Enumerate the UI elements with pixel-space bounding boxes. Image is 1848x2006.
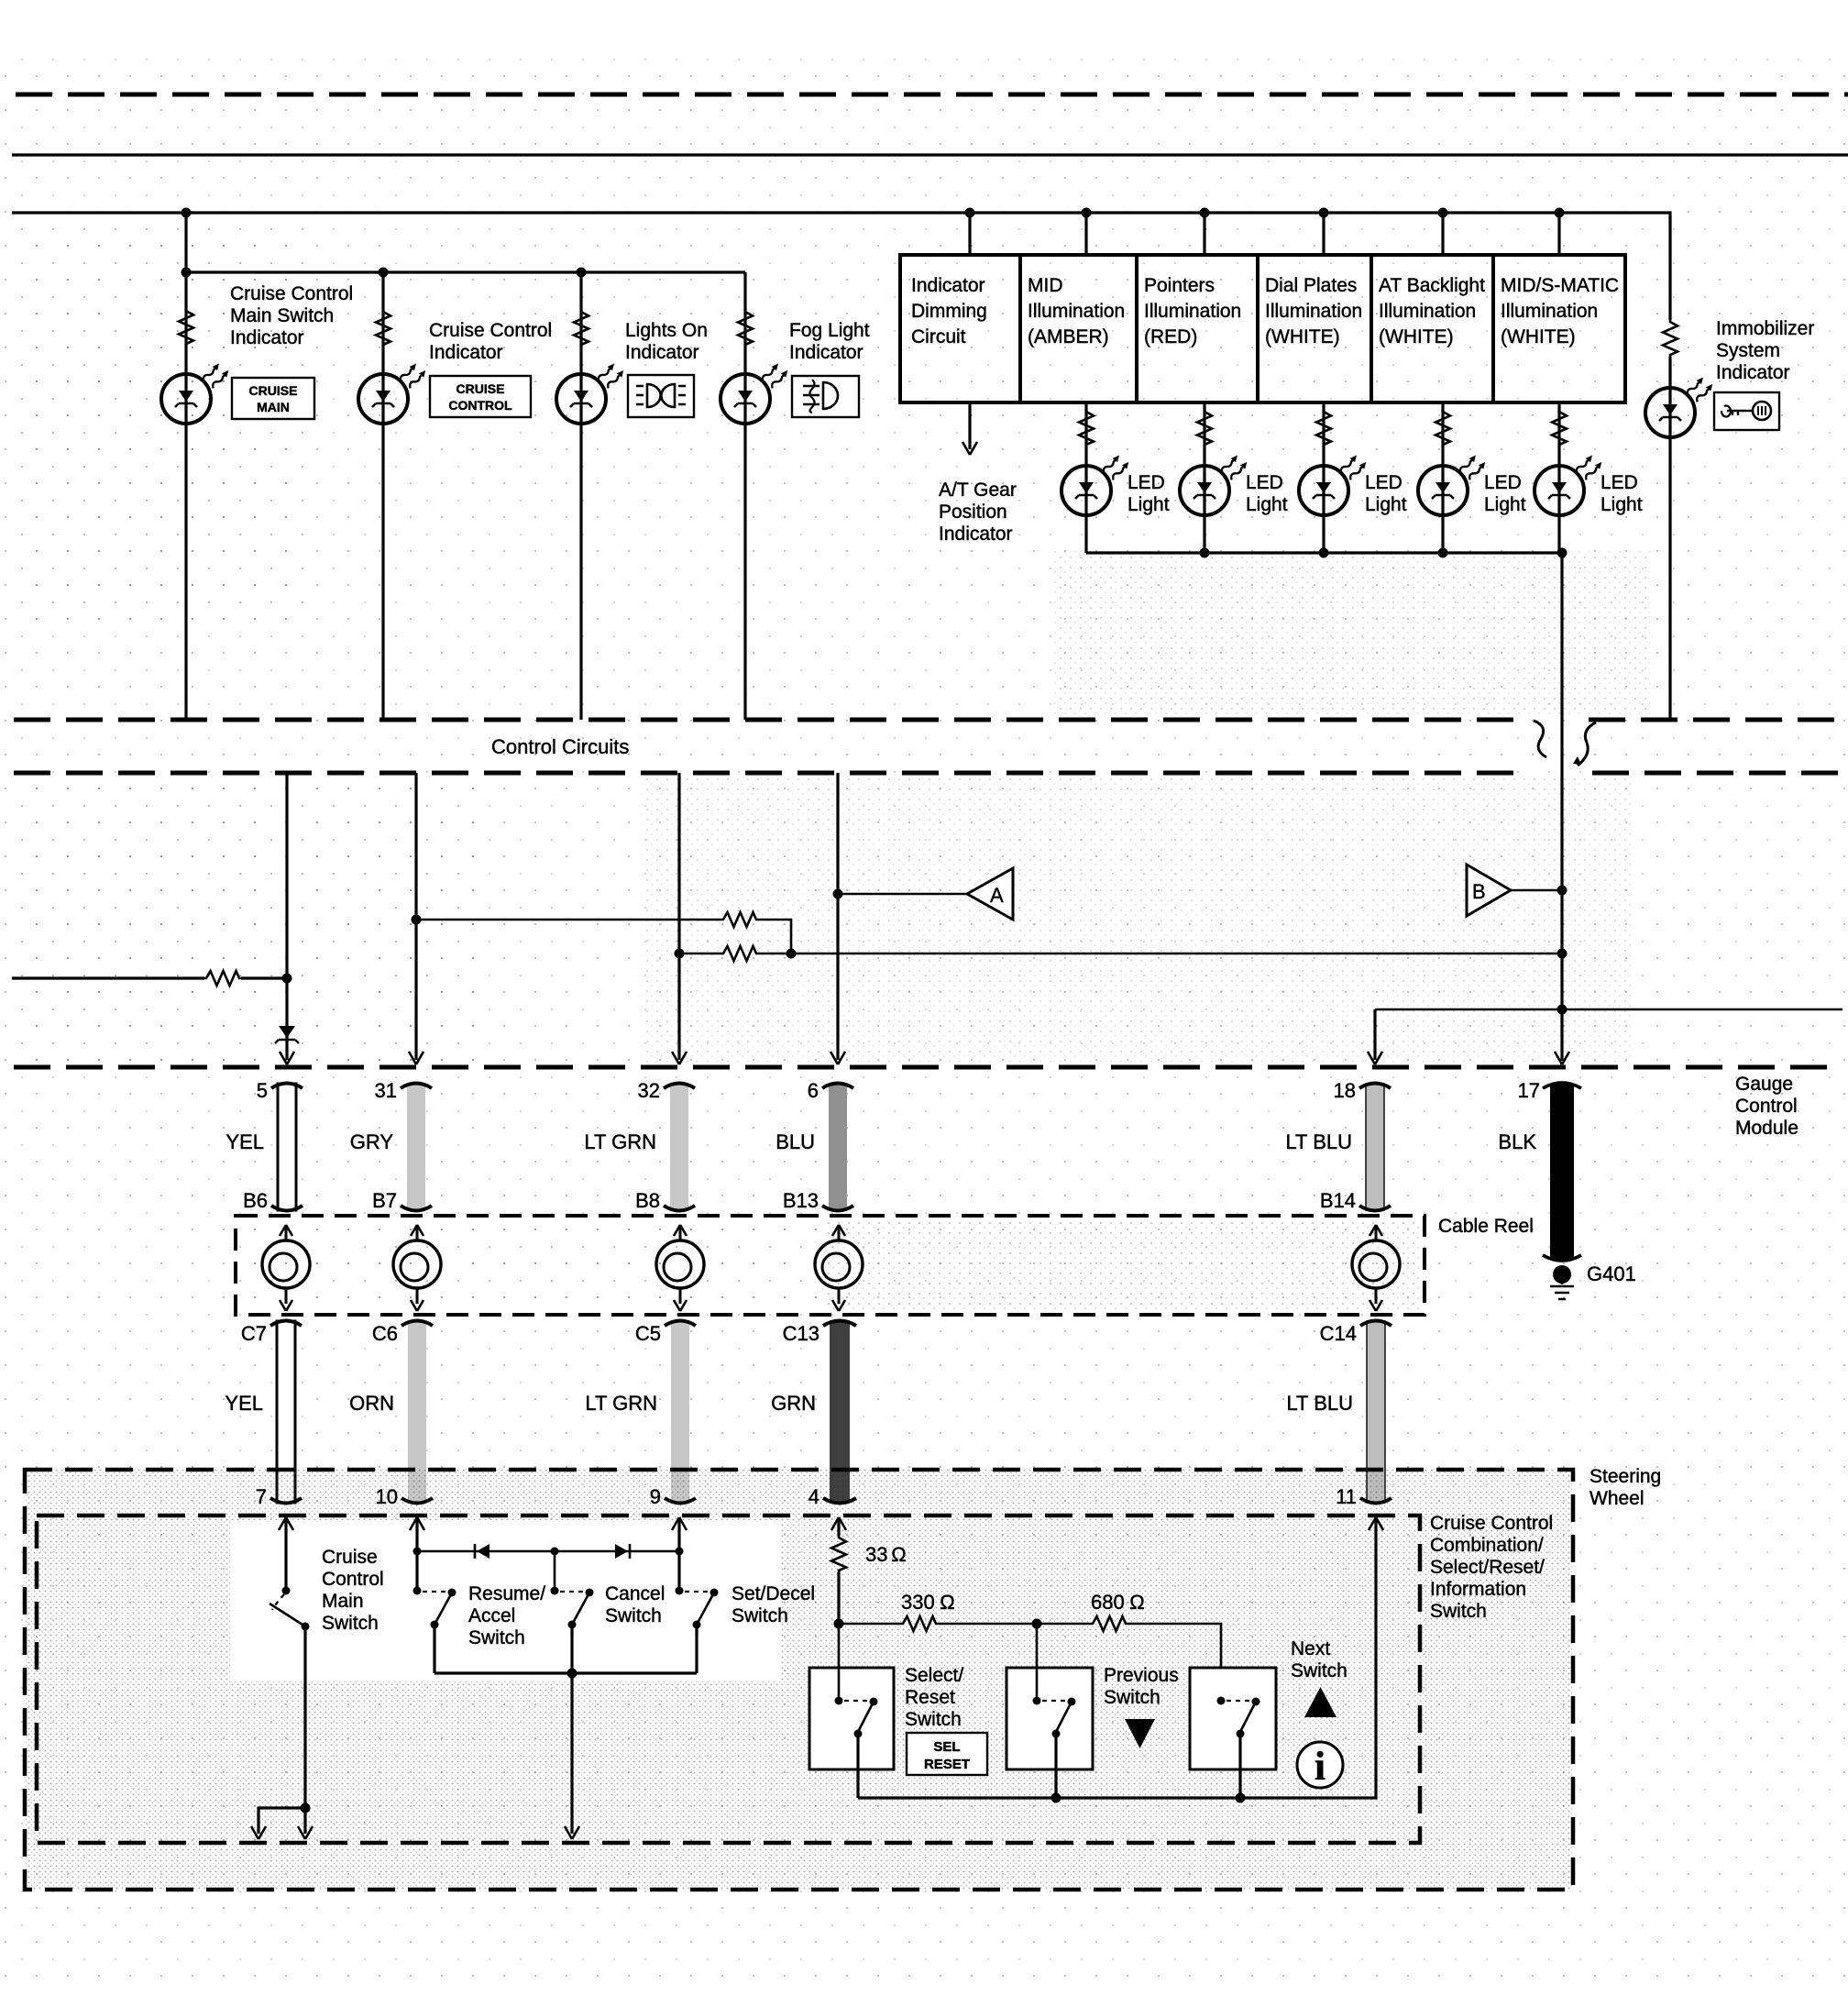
svg-text:Light: Light (1600, 494, 1643, 515)
boundary break squiggle marks (1534, 721, 1596, 766)
previous switch (1033, 1624, 1076, 1798)
diode D1 (points left) (475, 1544, 489, 1559)
node: junction on pin32 wire (675, 949, 685, 959)
svg-text:B: B (1472, 880, 1486, 903)
svg-text:Cruise: Cruise (322, 1547, 378, 1568)
diode coupling row (413, 1548, 684, 1556)
svg-text:17: 17 (1518, 1079, 1540, 1102)
power feed wire (upper solid rail) (12, 153, 1848, 156)
svg-text:LED: LED (1365, 472, 1402, 493)
wire: dial plates illumination LED branch (1322, 402, 1325, 553)
wire: switch output rail to pin 11 (858, 1517, 1383, 1803)
wire: resistor ladder row (839, 1623, 901, 1626)
fog light icon legend box (792, 376, 859, 417)
cable reel dashed box (236, 1216, 1424, 1315)
svg-text:Module: Module (1735, 1118, 1798, 1139)
connector pin 6 band (BLU) (822, 1084, 853, 1211)
wire: switch common rail (434, 1669, 697, 1840)
svg-text:A: A (990, 884, 1004, 907)
svg-text:Fog Light: Fog Light (789, 320, 870, 341)
gauge module boundary dashed (upper) (14, 718, 1526, 722)
connector A triangle (967, 868, 1013, 920)
svg-text:Select/Reset/: Select/Reset/ (1430, 1557, 1545, 1578)
svg-text:Light: Light (1365, 494, 1407, 515)
resistor (yel circuit) (204, 971, 241, 986)
svg-text:Indicator: Indicator (1716, 362, 1790, 383)
svg-text:Cable Reel: Cable Reel (1438, 1216, 1534, 1237)
svg-text:330: 330 (901, 1591, 935, 1614)
wire: pin18 feeder line (1375, 1009, 1842, 1011)
svg-text:6: 6 (808, 1079, 819, 1102)
wire: pointers illumination LED branch (1203, 402, 1205, 553)
wire: pin 7 entry arrow (279, 1517, 293, 1588)
svg-text:Cruise Control: Cruise Control (1430, 1513, 1553, 1534)
svg-text:C14: C14 (1320, 1322, 1357, 1345)
svg-text:Control: Control (1735, 1096, 1798, 1117)
svg-text:Next: Next (1291, 1638, 1330, 1659)
svg-text:BLU: BLU (775, 1130, 815, 1153)
next switch box (1190, 1668, 1276, 1769)
svg-text:SEL: SEL (933, 1739, 960, 1755)
svg-text:18: 18 (1334, 1079, 1356, 1102)
svg-text:Gauge: Gauge (1735, 1074, 1793, 1095)
svg-text:C6: C6 (372, 1322, 398, 1345)
wire: resistor to junction (241, 976, 287, 979)
svg-text:Indicator: Indicator (939, 524, 1013, 545)
svg-text:CRUISE: CRUISE (456, 381, 505, 396)
resistor (dial plates LED) (1316, 410, 1331, 446)
resistor 680 ohm (1091, 1616, 1127, 1631)
connector pin 32 band (LT GRN) (664, 1084, 695, 1211)
svg-text:A/T Gear: A/T Gear (939, 479, 1017, 501)
svg-text:5: 5 (257, 1079, 268, 1102)
arrowheads: main switch grounds (251, 1826, 313, 1839)
information switch icon (1297, 1742, 1343, 1789)
svg-text:C5: C5 (635, 1322, 661, 1345)
svg-text:Main: Main (322, 1591, 364, 1612)
node: junction pin18 feeder (1557, 1005, 1567, 1015)
svg-text:Light: Light (1127, 494, 1170, 515)
diode D2 (points right) (615, 1544, 630, 1559)
ground G401 (1550, 1265, 1574, 1299)
svg-text:Light: Light (1484, 494, 1526, 515)
svg-text:Cancel: Cancel (605, 1583, 665, 1604)
svg-text:MID: MID (1028, 275, 1063, 296)
wire: row 2 left segment (679, 953, 721, 955)
svg-text:Switch: Switch (905, 1709, 962, 1730)
svg-text:Wheel: Wheel (1589, 1488, 1644, 1509)
svg-text:B6: B6 (243, 1189, 268, 1212)
connector pin 18 band (LT BLU) (1359, 1084, 1391, 1211)
svg-text:Dial Plates: Dial Plates (1265, 275, 1357, 296)
svg-text:ORN: ORN (349, 1392, 394, 1415)
svg-text:MAIN: MAIN (257, 400, 290, 414)
wire: 33 ohm to node (834, 1572, 844, 1629)
svg-text:Switch: Switch (322, 1613, 379, 1634)
svg-text:Resume/: Resume/ (468, 1583, 545, 1604)
svg-text:Lights On: Lights On (625, 320, 708, 341)
LED light (MID) (1061, 452, 1132, 515)
node: junction on pin31 wire (412, 915, 422, 925)
svg-text:Illumination: Illumination (1379, 301, 1476, 322)
resistor feed line from left (12, 976, 204, 979)
LED cruise control main switch indicator (161, 360, 232, 424)
svg-text:C7: C7 (241, 1322, 267, 1345)
lights-on icon legend box (628, 375, 694, 417)
stipple inside cable reel (825, 1220, 1419, 1310)
resistor (row 1) (721, 912, 758, 927)
wire: immobilizer branch lower (1668, 357, 1671, 718)
wire: MID illumination LED branch (1084, 402, 1087, 553)
svg-text:(WHITE): (WHITE) (1265, 326, 1340, 347)
select/reset switch box (809, 1668, 894, 1769)
svg-text:Previous: Previous (1104, 1665, 1179, 1686)
svg-text:Steering: Steering (1589, 1466, 1661, 1487)
main illumination bus wire (12, 213, 1670, 320)
stipple shading middle band (642, 777, 1632, 1062)
LED light (pointers) (1180, 452, 1250, 515)
cable reel coil 1 (262, 1225, 310, 1311)
svg-text:Indicator: Indicator (789, 342, 863, 363)
svg-text:(WHITE): (WHITE) (1501, 326, 1576, 347)
resistor (MID LED) (1079, 410, 1094, 446)
svg-text:Indicator: Indicator (429, 342, 503, 363)
svg-text:Pointers: Pointers (1144, 275, 1215, 296)
svg-text:i: i (1314, 1744, 1325, 1789)
wire: cell feed drops from bus (970, 213, 1559, 255)
svg-text:BLK: BLK (1498, 1130, 1536, 1153)
svg-text:Ω: Ω (891, 1543, 907, 1566)
SEL RESET legend box (907, 1733, 987, 1775)
svg-text:680: 680 (1091, 1591, 1125, 1614)
node: junction row2 at common (1557, 949, 1567, 959)
arrowhead pin 17 drop (1555, 1052, 1569, 1064)
svg-text:B8: B8 (635, 1189, 660, 1212)
LED light (dial plates) (1299, 452, 1369, 515)
svg-text:Indicator: Indicator (625, 342, 699, 363)
svg-text:Ω: Ω (940, 1591, 955, 1614)
svg-text:Immobilizer: Immobilizer (1716, 318, 1814, 339)
svg-text:Information: Information (1430, 1579, 1526, 1600)
wire: B to common node (1511, 889, 1562, 892)
svg-text:Cruise Control: Cruise Control (429, 320, 552, 341)
svg-text:Reset: Reset (905, 1687, 955, 1708)
LED lights-on indicator (556, 360, 627, 424)
svg-text:C13: C13 (783, 1322, 819, 1345)
svg-text:LED: LED (1484, 472, 1522, 493)
svg-text:Indicator: Indicator (230, 327, 304, 348)
cable reel coil 3 (656, 1225, 704, 1311)
svg-text:Set/Decel: Set/Decel (731, 1583, 815, 1604)
wire: ladder right corner (1127, 1624, 1221, 1698)
diode on pin5 wire (275, 1026, 299, 1043)
svg-text:Switch: Switch (605, 1605, 662, 1626)
indicator sub-bus wire (186, 213, 745, 272)
wire: AT backlight LED branch (1441, 402, 1444, 553)
previous switch triangle icon (1125, 1719, 1155, 1748)
LED fog light indicator (720, 360, 791, 424)
resistor (AT backlight LED) (1435, 410, 1450, 446)
resistor (pointers LED) (1197, 410, 1212, 446)
node: junction row2 (786, 949, 797, 959)
connector pin C13 band (GRN) (823, 1321, 856, 1504)
connector pin C5 band (LT GRN) (665, 1321, 696, 1504)
set/decel switch (676, 1587, 719, 1674)
wire: pin 9 entry arrow (672, 1517, 687, 1591)
resistor (immobilizer indicator) (1663, 320, 1677, 357)
svg-text:Switch: Switch (731, 1605, 788, 1626)
next switch triangle icon (1304, 1687, 1336, 1717)
connector pin C14 band (LT BLU) (1360, 1321, 1391, 1504)
wire: row to first resistor (416, 919, 721, 921)
wire: main switch to ground split (258, 1626, 311, 1834)
node: junction B (1557, 886, 1567, 896)
svg-text:Illumination: Illumination (1028, 301, 1125, 322)
svg-text:Position: Position (939, 501, 1007, 523)
gauge module boundary dashed (lower) (14, 771, 1526, 776)
wire: cruise main indicator branch (184, 272, 187, 720)
resistor 330 ohm (901, 1616, 938, 1631)
wire: cruise control indicator branch (381, 272, 384, 720)
svg-text:Illumination: Illumination (1265, 301, 1362, 322)
svg-text:(RED): (RED) (1144, 326, 1197, 347)
cruise control main switch (269, 1587, 310, 1631)
previous switch box (1006, 1668, 1093, 1769)
cable reel coil 5 (1352, 1225, 1400, 1311)
steering wheel stipple fill (25, 1470, 1573, 1890)
svg-text:Cruise Control: Cruise Control (230, 283, 353, 304)
svg-text:RESET: RESET (924, 1757, 970, 1772)
LED cruise control indicator (358, 360, 429, 424)
gauge module lower boundary dashed (14, 1065, 1842, 1070)
LED immobilizer system indicator (1645, 374, 1716, 437)
wire: gauge common return (to pin 17) (1560, 553, 1563, 1061)
svg-text:Light: Light (1246, 494, 1288, 515)
resistor (fog light indicator) (738, 310, 753, 347)
connector B triangle (1467, 865, 1511, 916)
svg-text:MID/S-MATIC: MID/S-MATIC (1501, 275, 1619, 296)
svg-text:Select/: Select/ (905, 1665, 963, 1686)
cable reel coil 2 (393, 1225, 441, 1311)
svg-text:B13: B13 (783, 1189, 819, 1212)
svg-text:(WHITE): (WHITE) (1379, 326, 1454, 347)
illumination circuits box (900, 255, 1625, 402)
svg-text:31: 31 (375, 1079, 397, 1102)
wire: row 2 long segment to common node (758, 953, 1562, 955)
stipple shading top-right area (1054, 548, 1650, 715)
resistor 33 ohm (831, 1536, 846, 1572)
node: junction on pin6 wire (833, 889, 843, 899)
node: junction on pin5 wire (282, 974, 292, 984)
cruise combination switch inner dashed box (37, 1516, 1420, 1843)
white pocket around main switch labels (231, 1520, 781, 1681)
wire: LED return bus (1086, 551, 1562, 554)
LED light (MID/S-MATIC) (1534, 452, 1605, 515)
svg-text:Switch: Switch (468, 1627, 525, 1648)
wire: A/T gear position indicator arrow (962, 402, 977, 455)
connector pin C6 band (ORN) (401, 1321, 433, 1504)
svg-text:LT GRN: LT GRN (584, 1130, 656, 1153)
svg-text:GRN: GRN (771, 1392, 816, 1415)
svg-text:LED: LED (1246, 472, 1283, 493)
svg-text:32: 32 (638, 1079, 660, 1102)
wire: pin 4 entry arrow (831, 1517, 846, 1536)
svg-text:LT GRN: LT GRN (585, 1392, 657, 1415)
wire: pin 10 entry arrow (410, 1517, 424, 1591)
svg-text:System: System (1716, 340, 1780, 361)
resistor (MID/S-MATIC LED) (1552, 410, 1567, 446)
svg-text:B14: B14 (1320, 1189, 1356, 1212)
resume/accel switch (413, 1587, 456, 1674)
svg-text:Illumination: Illumination (1144, 301, 1241, 322)
connector pin 5 band (YEL) (271, 1084, 302, 1211)
svg-text:Control Circuits: Control Circuits (491, 735, 629, 758)
wire: MID/S-MATIC LED branch (1557, 402, 1560, 553)
LED light (AT backlight) (1418, 452, 1489, 515)
svg-text:Combination/: Combination/ (1430, 1535, 1544, 1556)
cancel switch (551, 1551, 594, 1673)
connector pin 31 band (GRY) (401, 1084, 432, 1211)
wire: pin 6 drop (blu circuit) (830, 773, 845, 1064)
CRUISE MAIN legend box (232, 378, 314, 419)
page border dashed line (top) (16, 93, 1848, 97)
CRUISE CONTROL legend box (430, 376, 531, 417)
svg-text:Switch: Switch (1291, 1660, 1347, 1681)
resistor (row 2) (721, 946, 758, 961)
select/reset switch (835, 1624, 878, 1798)
wire: pin 32 drop (lt grn circuit) (672, 773, 687, 1064)
svg-text:AT Backlight: AT Backlight (1379, 275, 1485, 296)
connector pin C7 band (YEL) (270, 1321, 302, 1504)
wire: pin 18 drop (1368, 1009, 1382, 1064)
svg-text:Dimming: Dimming (911, 301, 987, 322)
svg-text:LED: LED (1127, 472, 1165, 493)
svg-text:Switch: Switch (1430, 1601, 1487, 1622)
wire: lights-on indicator branch (579, 272, 582, 720)
node: bus junction dots (181, 208, 1565, 218)
next switch (1217, 1697, 1260, 1799)
svg-text:33: 33 (865, 1543, 887, 1566)
immobilizer key icon legend box (1714, 392, 1779, 430)
svg-text:Indicator: Indicator (911, 275, 985, 296)
svg-text:Illumination: Illumination (1501, 301, 1598, 322)
svg-text:GRY: GRY (350, 1130, 394, 1153)
svg-text:(AMBER): (AMBER) (1028, 326, 1109, 347)
svg-text:Ω: Ω (1129, 1591, 1145, 1614)
resistor (lights-on indicator) (574, 310, 588, 347)
wire: pin 31 drop (gry circuit) (409, 773, 423, 1064)
svg-text:LT BLU: LT BLU (1286, 1392, 1353, 1415)
svg-text:LT BLU: LT BLU (1285, 1130, 1352, 1153)
svg-text:Circuit: Circuit (911, 326, 966, 347)
svg-text:Control: Control (322, 1569, 384, 1590)
cell divider lines (1020, 255, 1493, 402)
svg-text:B7: B7 (372, 1189, 397, 1212)
svg-text:YEL: YEL (225, 1392, 263, 1415)
resistor (cruise control indicator) (376, 310, 390, 347)
cable reel coil 4 (815, 1225, 863, 1311)
connector pin 17 band (BLK) (1543, 1083, 1581, 1261)
wire: ladder mid segment (938, 1619, 1091, 1629)
node: sub-bus junction dots (181, 268, 587, 278)
wire: resistor corner down (758, 920, 791, 953)
steering wheel outer dashed box (25, 1470, 1573, 1890)
svg-text:Main Switch: Main Switch (230, 305, 334, 326)
svg-text:Switch: Switch (1104, 1687, 1160, 1708)
svg-text:CONTROL: CONTROL (448, 398, 512, 413)
svg-text:G401: G401 (1587, 1262, 1636, 1285)
svg-text:CRUISE: CRUISE (249, 383, 298, 398)
wire: fog light indicator branch (743, 272, 746, 720)
svg-text:YEL: YEL (225, 1130, 264, 1153)
wire: to connector A (838, 893, 967, 896)
node: LED bus junction dots (1200, 548, 1567, 558)
resistor (cruise main indicator) (179, 309, 193, 346)
svg-text:LED: LED (1600, 472, 1638, 493)
svg-text:Accel: Accel (468, 1605, 515, 1626)
wire: pin 5 drop (yel circuit) (280, 773, 294, 1064)
